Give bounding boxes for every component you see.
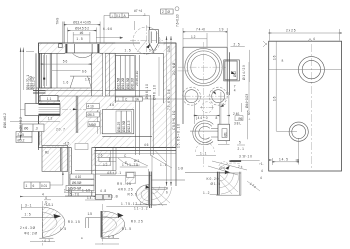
detail D3 arrow bbox=[146, 185, 150, 189]
svg-text:7 5 . 6 +0 . 1 6: 7 5 . 6 +0 . 1 6 bbox=[167, 89, 171, 110]
svg-text:1 -10: 1 -10 bbox=[64, 189, 71, 193]
dim under cv stem bbox=[218, 144, 230, 146]
piston extra verticals bbox=[45, 53, 58, 88]
svg-text:6: 6 bbox=[33, 184, 35, 188]
svg-text:1 Θ: 1 Θ bbox=[178, 166, 184, 170]
leader from frame1 to circle bbox=[129, 16, 150, 30]
detail D3 vertical edge pair bbox=[149, 172, 151, 209]
svg-text:1 - 1: 1 - 1 bbox=[200, 152, 207, 156]
svg-text:2 0 . 7: 2 0 . 7 bbox=[56, 128, 65, 132]
svg-text:1 . 5: 1 . 5 bbox=[108, 235, 114, 239]
svg-text:2 0 . 6 Ø: 2 0 . 6 Ø bbox=[172, 62, 176, 75]
body footer hatch bbox=[95, 151, 111, 166]
control frame mid bbox=[116, 97, 143, 101]
svg-text:R 1 . 5: R 1 . 5 bbox=[122, 227, 132, 231]
svg-text:7: 7 bbox=[226, 141, 228, 145]
detail D2 dim 14.1 bbox=[85, 199, 105, 201]
svg-text:2 x 2 5: 2 x 2 5 bbox=[286, 29, 296, 33]
cavity C white bbox=[102, 110, 134, 137]
cavity C left dims bbox=[98, 110, 101, 134]
svg-text:E: E bbox=[125, 161, 127, 165]
svg-text:4 . 8: 4 . 8 bbox=[100, 189, 106, 193]
bottom dim row bbox=[20, 196, 96, 198]
svg-text:2: 2 bbox=[162, 10, 164, 14]
plate hole 2 bbox=[289, 122, 308, 141]
svg-text:Ø 1 . 5: Ø 1 . 5 bbox=[211, 182, 221, 186]
plate leader hole1 bbox=[269, 41, 342, 132]
svg-text:7/H9: 7/H9 bbox=[56, 18, 60, 25]
svg-text:Ø5.2: Ø5.2 bbox=[18, 138, 25, 142]
detail D2 dim row right bbox=[106, 206, 148, 208]
V arrow bbox=[146, 43, 150, 48]
svg-text:1. 6: 1. 6 bbox=[63, 81, 69, 85]
fraction 5 / 2-1 bbox=[237, 144, 245, 146]
svg-text:Ø12.5Ø: Ø12.5Ø bbox=[116, 77, 120, 89]
svg-text:7.6+0.10: 7.6+0.10 bbox=[176, 14, 180, 27]
svg-text:4 6: 4 6 bbox=[110, 103, 115, 107]
svg-text:M6Ø: M6Ø bbox=[89, 123, 96, 127]
footer right verticals bbox=[75, 148, 116, 175]
small box above stem labels bbox=[75, 144, 88, 150]
band boss cut white bbox=[65, 43, 99, 53]
annulus horizontal line bbox=[190, 129, 218, 138]
svg-text:2 × 6 - 3 Ø: 2 × 6 - 3 Ø bbox=[20, 226, 36, 230]
cavity A piston rect bbox=[40, 53, 42, 88]
cavity A dim 66 bbox=[52, 70, 81, 72]
svg-text:Ø44+0.03: Ø44+0.03 bbox=[245, 94, 249, 108]
middle dashed circle bbox=[200, 102, 214, 113]
plate centerline bbox=[310, 44, 312, 168]
cavity A vertical dim bbox=[44, 55, 47, 86]
svg-text:3 8 L: 3 8 L bbox=[234, 122, 241, 126]
svg-text:3 .'8'- 1 0: 3 .'8'- 1 0 bbox=[239, 155, 252, 159]
svg-text:4 10: 4 10 bbox=[88, 105, 94, 109]
svg-text:1 : 5: 1 : 5 bbox=[25, 212, 31, 216]
svg-text:2 - 1: 2 - 1 bbox=[238, 147, 245, 151]
left bracket verticals bbox=[63, 22, 65, 43]
svg-text:4 8 ± 0 . 1: 4 8 ± 0 . 1 bbox=[107, 171, 121, 175]
top dim 74 bbox=[183, 28, 227, 47]
detail D3 horizontals bbox=[135, 180, 185, 205]
svg-text:1 2: 1 2 bbox=[191, 35, 196, 39]
svg-text:2×Ø6.5 0.2: 2×Ø6.5 0.2 bbox=[19, 117, 23, 133]
svg-text:1 4 . 5: 1 4 . 5 bbox=[279, 157, 288, 161]
detail D1 axis bbox=[41, 201, 43, 246]
svg-text:Rz: Rz bbox=[45, 151, 49, 155]
dim 44 under circles bbox=[195, 92, 229, 125]
small hatch patch left of D3 bbox=[126, 172, 136, 184]
long vertical dim lines bbox=[167, 36, 172, 186]
D1 bottom extras bbox=[30, 241, 55, 243]
svg-text:Ø11.2Ø: Ø11.2Ø bbox=[131, 78, 135, 89]
cavity B white bbox=[115, 53, 163, 103]
svg-text:~1.5: ~1.5 bbox=[63, 142, 70, 146]
svg-text:b: b bbox=[166, 190, 168, 194]
partial circle below bbox=[196, 143, 215, 153]
svg-text:Ø10.5Ø: Ø10.5Ø bbox=[122, 120, 126, 132]
svg-text:1 . 5: 1 . 5 bbox=[60, 227, 66, 231]
svg-text:4 R 0 . 2 5: 4 R 0 . 2 5 bbox=[118, 187, 133, 191]
slot verticals in hatch bbox=[76, 96, 78, 133]
top dims over band: d14.55 bbox=[68, 28, 97, 43]
footer dark boxes bbox=[96, 195, 112, 200]
top dims over band: d13.4 bbox=[64, 22, 100, 43]
svg-text:7 ±: 7 ± bbox=[238, 165, 243, 169]
svg-text:3 - 1: 3 - 1 bbox=[25, 203, 32, 207]
svg-text:( 4 4 + 0: ( 4 4 + 0 bbox=[196, 116, 208, 120]
svg-text:1 2: 1 2 bbox=[48, 117, 53, 121]
svg-text:1 6: 1 6 bbox=[272, 55, 276, 60]
svg-text:1 6: 1 6 bbox=[272, 96, 276, 101]
detail D1 arrow bbox=[54, 214, 62, 219]
svg-text:R 5 . 5: R 5 . 5 bbox=[128, 193, 138, 197]
svg-text:5 - 7 0: 5 - 7 0 bbox=[70, 193, 79, 197]
dim 2.5 right bbox=[231, 46, 245, 48]
svg-text:5 0 °: 5 0 ° bbox=[149, 48, 156, 52]
svg-text:Ø6.5Ø: Ø6.5Ø bbox=[72, 181, 82, 185]
cavity A white bbox=[36, 53, 91, 88]
svg-text:Φ 6 : 2 Ø: Φ 6 : 2 Ø bbox=[24, 232, 38, 236]
svg-text:⌐1.: ⌐1. bbox=[259, 162, 264, 166]
right vertical dim of central view bbox=[248, 62, 250, 110]
svg-text:Ø13.4 +0.05: Ø13.4 +0.05 bbox=[73, 20, 91, 24]
control frame top B bbox=[161, 9, 174, 14]
svg-text:4 10: 4 10 bbox=[75, 175, 81, 179]
detail D4 right verticals bbox=[216, 172, 241, 196]
boxed labels column mid bbox=[87, 104, 100, 127]
svg-text:1.5: 1.5 bbox=[88, 212, 93, 216]
svg-text:4: 4 bbox=[261, 169, 263, 173]
plate top tick bbox=[308, 39, 312, 42]
boxed label 6.3 bbox=[22, 124, 44, 132]
verticals under B1 bbox=[40, 132, 42, 146]
svg-text:4: 4 bbox=[260, 176, 262, 180]
svg-text:8: 8 bbox=[216, 116, 218, 120]
left-mid hatch block bbox=[42, 146, 68, 172]
svg-text:1 - 2: 1 - 2 bbox=[203, 191, 210, 195]
bore mouth curve bbox=[73, 53, 93, 58]
plate outline bbox=[269, 41, 342, 171]
svg-text:6 - 6 6: 6 - 6 6 bbox=[103, 27, 112, 31]
circled mark top-right bbox=[175, 7, 179, 11]
detail D4 thick edge pair bbox=[217, 172, 219, 196]
stem of central view bbox=[218, 124, 230, 141]
svg-text:b: b bbox=[46, 200, 48, 204]
svg-text:7 4 +0: 7 4 +0 bbox=[196, 28, 205, 32]
bore wall lines left of cavity B bbox=[103, 53, 105, 96]
frame leader line across bbox=[143, 98, 227, 100]
detail D4 top dark bar bbox=[229, 160, 241, 162]
leader lines lower right bbox=[208, 161, 247, 175]
detail D4 fan bbox=[220, 174, 240, 195]
leader from frame A bbox=[104, 15, 110, 43]
svg-text:5: 5 bbox=[239, 141, 241, 145]
svg-text:a: a bbox=[282, 59, 284, 63]
detail D4 curved leader bbox=[219, 163, 241, 169]
detail D2 lobe bbox=[102, 211, 124, 237]
leader from frame bbox=[50, 172, 63, 185]
detail D4 slanted leader bbox=[247, 181, 260, 191]
svg-text:#6: #6 bbox=[80, 31, 84, 35]
detail D2 arrow bbox=[118, 213, 124, 218]
left small stacked boxes bbox=[16, 132, 32, 143]
cavity A dim 56 bbox=[41, 63, 92, 65]
svg-text:R 0 . 2 5: R 0 . 2 5 bbox=[131, 220, 143, 224]
svg-text:Ø 4 6 . 1 0: Ø 4 6 . 1 0 bbox=[145, 84, 149, 99]
svg-text:2 . 5: 2 . 5 bbox=[234, 43, 240, 47]
svg-text:Ø12.1.5: Ø12.1.5 bbox=[127, 120, 131, 132]
svg-text:4 . 2: 4 . 2 bbox=[44, 239, 50, 243]
svg-text:1 -1/2: 1 -1/2 bbox=[82, 189, 90, 193]
svg-text:0.05: 0.05 bbox=[167, 46, 171, 52]
svg-text:C 0 5 +0 . 1 0: C 0 5 +0 . 1 0 bbox=[172, 111, 176, 130]
tiny box left of boss bbox=[59, 44, 63, 48]
small upper tongue bbox=[40, 96, 58, 102]
dashed semi ellipse D4 top bbox=[219, 162, 229, 166]
svg-text:4: 4 bbox=[313, 37, 315, 41]
svg-text:29.46-0.10: 29.46-0.10 bbox=[135, 71, 139, 86]
svg-text:1 - 1: 1 - 1 bbox=[160, 163, 167, 167]
svg-text:1. 6: 1. 6 bbox=[85, 78, 91, 82]
svg-text:4: 4 bbox=[234, 88, 236, 92]
svg-text:1 1: 1 1 bbox=[47, 97, 52, 101]
cavity C stacked labels bbox=[116, 111, 131, 133]
svg-text:(2x): (2x) bbox=[220, 166, 226, 170]
dim arrowheads cluster bbox=[39, 24, 342, 161]
cavity B top steps bbox=[115, 56, 134, 91]
dashed circle 50deg bbox=[133, 27, 160, 54]
svg-text:1 . 5: 1 . 5 bbox=[125, 48, 131, 52]
svg-text:Ø12.2+0: Ø12.2+0 bbox=[32, 76, 36, 89]
svg-text:-1: -1 bbox=[143, 13, 146, 17]
detail D2 axis bbox=[101, 204, 103, 246]
svg-text:0.01: 0.01 bbox=[41, 184, 47, 188]
svg-text:Ø 4 6 . 1 0: Ø 4 6 . 1 0 bbox=[153, 85, 157, 100]
control frame top A bbox=[110, 13, 129, 18]
big bore circle bbox=[185, 48, 222, 85]
bore channel white bbox=[134, 95, 152, 148]
svg-text:5 6: 5 6 bbox=[63, 60, 68, 64]
detail D3 leaf bbox=[136, 185, 149, 205]
vertical dim line right bbox=[248, 50, 250, 82]
detail D4 long horizontal bbox=[185, 172, 226, 174]
dim 48 row right of stem bbox=[100, 155, 152, 206]
tongue stud left bbox=[25, 103, 60, 115]
svg-text:1: 1 bbox=[26, 184, 28, 188]
svg-text:Ø16.4±0.2: Ø16.4±0.2 bbox=[3, 113, 7, 128]
cavity B verticals bbox=[136, 55, 154, 155]
plate bottom dim bbox=[273, 138, 299, 165]
small circle right bbox=[209, 87, 227, 105]
right stepped block bbox=[224, 60, 240, 81]
dim 29.46 vertical in bore bbox=[158, 57, 160, 96]
cavity A trapezoid bore bbox=[70, 76, 91, 88]
D2 bottom extras bbox=[95, 243, 119, 245]
detail D1 leaf bbox=[43, 207, 65, 238]
svg-text:K 0 . 2 0: K 0 . 2 0 bbox=[207, 177, 219, 181]
svg-text:⊥: ⊥ bbox=[117, 97, 120, 101]
detail D4 dim 1-2 bbox=[210, 194, 220, 196]
tongue centerline bbox=[20, 108, 86, 110]
small circle left bbox=[183, 87, 201, 105]
svg-text:1 4 . 1: 1 4 . 1 bbox=[87, 196, 96, 200]
leader arrows to circles bbox=[212, 90, 226, 107]
dim 12 below tongue bbox=[10, 121, 60, 123]
stem lower dims bbox=[64, 192, 96, 194]
svg-text:Ø11.25: Ø11.25 bbox=[117, 122, 121, 132]
svg-text:Ø1: Ø1 bbox=[224, 132, 228, 136]
svg-text:1 5 . 6 5 + 0 . 1 0: 1 5 . 6 5 + 0 . 1 0 bbox=[177, 124, 181, 148]
svg-text:.3: .3 bbox=[35, 126, 38, 130]
detail D3 fan arcs bbox=[152, 187, 172, 207]
dim 11 above tongue bbox=[39, 100, 61, 102]
cavity C rect bbox=[102, 110, 152, 137]
V-port boss bbox=[149, 30, 159, 54]
stem cavity white bbox=[71, 143, 92, 196]
plate top dim bbox=[270, 29, 340, 41]
detail D1 horizontal bbox=[21, 217, 56, 219]
svg-text:R 0 . 1 5: R 0 . 1 5 bbox=[68, 220, 80, 224]
dim line above band right bbox=[96, 37, 123, 39]
plate hole 1 bbox=[298, 57, 324, 83]
svg-text:Ø14.2Ø: Ø14.2Ø bbox=[121, 77, 125, 89]
right-bottom dim cluster of main view bbox=[95, 151, 177, 169]
svg-text:6 6: 6 6 bbox=[82, 69, 87, 73]
svg-text:4: 4 bbox=[42, 193, 44, 197]
detail D1 bottom line bbox=[39, 237, 53, 239]
svg-text:5: 5 bbox=[247, 110, 251, 112]
hatched body bbox=[39, 43, 177, 148]
svg-text:≤: ≤ bbox=[81, 236, 83, 240]
stem hatch strips bbox=[69, 151, 96, 197]
svg-text:1 1 - 1 . 2: 1 1 - 1 . 2 bbox=[134, 206, 148, 210]
outline top bbox=[183, 47, 229, 124]
detail D1 dims above bbox=[21, 200, 51, 210]
control frame bottom-left bbox=[24, 182, 50, 189]
svg-text:⊥: ⊥ bbox=[248, 117, 251, 121]
svg-text:Ø 1 4 / 2 9: Ø 1 4 / 2 9 bbox=[242, 65, 246, 80]
band boss borders bbox=[65, 44, 99, 53]
left wall dark bars bbox=[33, 91, 46, 93]
stem inner boxes bbox=[66, 174, 94, 191]
detail D2 horizontal bbox=[86, 218, 119, 228]
left vertical dimension lines bbox=[21, 48, 34, 141]
svg-text:R 1 . Đ: R 1 . Đ bbox=[108, 195, 119, 199]
cavity A right wall edge bbox=[36, 53, 163, 103]
svg-text:Ø6.3: Ø6.3 bbox=[88, 113, 95, 117]
svg-text:4 6: 4 6 bbox=[144, 143, 149, 147]
svg-text:R 9 . - 2 6: R 9 . - 2 6 bbox=[117, 182, 131, 186]
black dot seal bbox=[43, 78, 45, 80]
svg-text:2 40.: 2 40. bbox=[233, 112, 240, 116]
dim rows y152 under central stem bbox=[196, 155, 216, 157]
main outline lines bbox=[36, 43, 176, 186]
svg-text:#7 +4: #7 +4 bbox=[134, 9, 142, 13]
svg-text:1 9: 1 9 bbox=[219, 28, 224, 32]
cavity B stacked labels bbox=[116, 56, 135, 90]
svg-text:1 . 7 5 - 1 7 . 1: 1 . 7 5 - 1 7 . 1 bbox=[121, 202, 142, 206]
detail D4 arrow bbox=[225, 170, 230, 174]
centerlines big circle bbox=[178, 42, 227, 168]
left edge marks of plate bbox=[263, 41, 267, 47]
V-groove white cut in band bbox=[115, 42, 163, 54]
svg-text:Ø6: Ø6 bbox=[24, 126, 28, 130]
top dims over band: d6 bbox=[73, 32, 90, 43]
detail D2 bottom bbox=[101, 238, 119, 240]
svg-text:0.1: 0.1 bbox=[116, 14, 121, 18]
C annulus bbox=[193, 121, 214, 145]
detail D2 edge bar bbox=[101, 211, 102, 238]
svg-text:⊥: ⊥ bbox=[111, 14, 114, 18]
centerline small circles bbox=[184, 95, 229, 97]
svg-text:Ø10.5Ø: Ø10.5Ø bbox=[126, 77, 130, 89]
footer dims bbox=[120, 166, 147, 168]
stem verticals bbox=[61, 148, 99, 197]
svg-text:1 . 5: 1 . 5 bbox=[76, 37, 82, 41]
